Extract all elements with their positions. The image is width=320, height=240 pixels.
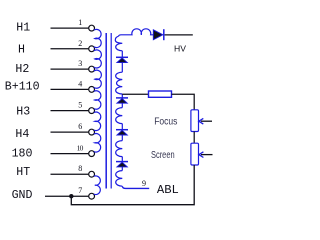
svg-text:2: 2 xyxy=(78,39,82,48)
focus wiper arrow line xyxy=(201,120,212,122)
diode bar xyxy=(116,161,128,163)
diode triangle xyxy=(117,130,127,135)
svg-text:5: 5 xyxy=(78,101,82,110)
svg-text:Screen: Screen xyxy=(151,150,175,161)
primary winding section 4 xyxy=(94,91,101,109)
wire xyxy=(121,94,123,98)
svg-text:10: 10 xyxy=(77,144,84,153)
pin 4 terminal circle xyxy=(89,87,95,93)
diode bar xyxy=(116,129,128,131)
pin 4 lead wire xyxy=(51,88,89,90)
primary winding section 2 xyxy=(94,50,101,68)
primary winding section 5 xyxy=(94,112,101,130)
primary winding section 3 xyxy=(94,70,101,88)
wire xyxy=(121,103,123,107)
pin 3 lead wire xyxy=(51,68,89,70)
secondary top wire to HV coil xyxy=(119,29,154,36)
wire xyxy=(121,157,123,162)
svg-text:ABL: ABL xyxy=(157,183,179,197)
pin 8 terminal circle xyxy=(89,171,95,177)
pin 6 terminal circle xyxy=(89,129,95,135)
focus wiper arrowhead xyxy=(199,118,204,124)
svg-text:HV: HV xyxy=(174,44,186,54)
pin 10 lead wire xyxy=(51,153,89,155)
svg-text:GND: GND xyxy=(12,189,33,202)
pin 7 terminal circle xyxy=(89,193,95,199)
resistor R1 xyxy=(149,91,172,97)
screen potentiometer body xyxy=(191,143,199,165)
svg-text:7: 7 xyxy=(78,186,82,195)
svg-text:H2: H2 xyxy=(15,63,29,76)
pin 1 terminal circle xyxy=(89,25,95,31)
svg-text:HT: HT xyxy=(16,166,30,179)
svg-text:1: 1 xyxy=(78,18,82,27)
secondary winding section D xyxy=(116,141,123,157)
pin 5 lead wire xyxy=(51,110,89,112)
screen wiper arrowhead xyxy=(199,152,204,158)
secondary winding section C xyxy=(116,108,123,124)
junction dot on GND xyxy=(69,194,73,198)
diode triangle xyxy=(117,58,127,63)
pin 6 lead wire xyxy=(51,131,89,133)
wire xyxy=(121,135,123,141)
wire xyxy=(121,124,123,130)
svg-text:H4: H4 xyxy=(15,128,29,141)
svg-text:3: 3 xyxy=(78,59,82,68)
diode bar xyxy=(116,56,128,58)
pin 9 wire (ABL) xyxy=(122,186,149,188)
HV diode bar xyxy=(163,29,165,40)
primary winding section 1 xyxy=(94,29,101,47)
wire focus to screen xyxy=(193,132,195,144)
wire xyxy=(121,167,123,171)
primary winding section 7 xyxy=(94,176,100,195)
pin 10 terminal circle xyxy=(89,151,95,157)
secondary winding section E xyxy=(116,171,123,187)
diode triangle xyxy=(117,162,127,167)
wire xyxy=(121,51,123,58)
screen wiper arrow line xyxy=(201,154,213,156)
pin 5 terminal circle xyxy=(89,108,95,114)
primary winding section 6 xyxy=(94,134,101,152)
diode bar xyxy=(116,97,128,99)
pin 7 lead wire xyxy=(45,195,88,197)
svg-text:9: 9 xyxy=(142,179,146,188)
svg-text:H3: H3 xyxy=(16,105,30,118)
diode triangle xyxy=(117,99,127,104)
core line left xyxy=(105,33,107,189)
wire resistor to corner xyxy=(172,94,195,110)
focus potentiometer body xyxy=(191,110,199,132)
svg-text:180: 180 xyxy=(12,147,33,160)
core line right xyxy=(110,33,112,189)
svg-text:4: 4 xyxy=(78,79,82,88)
ground return wire xyxy=(71,165,194,205)
tap wire to resistor xyxy=(122,93,148,95)
svg-text:8: 8 xyxy=(78,164,82,173)
pin 3 terminal circle xyxy=(89,66,95,72)
HV output wire xyxy=(165,34,193,36)
pin 1 lead wire xyxy=(51,27,89,29)
pin 2 lead wire xyxy=(51,48,89,50)
secondary winding section B xyxy=(116,72,123,94)
HV diode triangle xyxy=(153,30,163,40)
pin 2 terminal circle xyxy=(89,46,95,52)
secondary winding section A xyxy=(115,36,122,51)
pin 8 lead wire xyxy=(51,173,89,175)
svg-text:Focus: Focus xyxy=(154,116,177,127)
svg-text:H1: H1 xyxy=(16,21,30,34)
svg-text:H: H xyxy=(18,43,25,56)
svg-text:6: 6 xyxy=(78,122,82,131)
svg-text:B+110: B+110 xyxy=(5,80,40,93)
wire xyxy=(121,63,123,73)
